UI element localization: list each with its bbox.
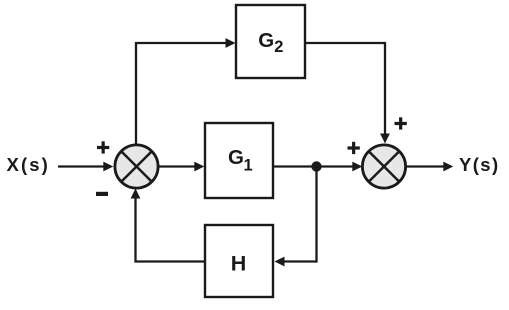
- svg-text:2: 2: [274, 38, 283, 56]
- plus sign at S2 top input: [395, 117, 407, 129]
- wire: S1 top up and right into block G2: [136, 38, 236, 144]
- node: takeoff point on G1 output: [311, 161, 321, 171]
- svg-text:G: G: [228, 146, 244, 169]
- block G2: [236, 5, 305, 78]
- plus sign at S1 upper-left input: [97, 141, 109, 153]
- svg-text:H: H: [231, 252, 247, 276]
- minus sign at S1 lower-left input: [96, 192, 108, 196]
- summing junction S1: [115, 145, 158, 188]
- wire: node down and left into block H: [275, 167, 317, 267]
- wire: input arrow into summing junction S1: [58, 162, 113, 172]
- wire: S2 output arrow to Y(s): [406, 162, 453, 172]
- wire: G1 output right into summing junction S2: [274, 162, 362, 172]
- wire: H output left and up into S1 bottom: [131, 189, 204, 262]
- summing junction S2: [362, 145, 405, 188]
- block H: [205, 225, 273, 297]
- block G1: [205, 123, 273, 198]
- plus sign at S2 left input: [348, 142, 360, 154]
- svg-text:Y(s): Y(s): [459, 154, 500, 175]
- wire: G2 output right and down into summing junction S2: [305, 43, 390, 144]
- svg-text:1: 1: [244, 156, 253, 174]
- svg-text:G: G: [258, 29, 274, 52]
- svg-text:X(s): X(s): [7, 154, 50, 175]
- wire: S1 output right into block G1: [158, 162, 204, 172]
